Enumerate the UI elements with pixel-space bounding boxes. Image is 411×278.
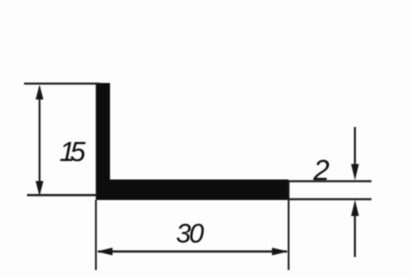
arrowhead up (15 top) xyxy=(36,85,44,100)
extension line bottom-left (15 dim) xyxy=(27,194,97,196)
svg-text:30: 30 xyxy=(176,219,204,249)
arrowhead left (30) xyxy=(97,248,113,256)
extension line bottom-right (2 dim) xyxy=(289,198,372,200)
arrowhead right (30) xyxy=(272,248,288,256)
down arrow (2 dim upper) xyxy=(354,127,356,165)
extension line top (15 dim) xyxy=(24,83,100,85)
L-profile body xyxy=(96,83,289,200)
extension line left vertical (30 dim) xyxy=(95,200,97,270)
svg-text:2: 2 xyxy=(312,155,329,187)
extension line top-right (2 dim) xyxy=(289,180,372,182)
arrowhead down (15 bottom) xyxy=(36,181,44,196)
dimension line 15 (vertical, double arrow) xyxy=(39,87,41,193)
up arrow (2 dim lower) xyxy=(354,215,356,257)
dimension line 30 (horizontal, double arrow) xyxy=(98,250,287,252)
extension line right vertical (30 dim) xyxy=(288,181,290,270)
